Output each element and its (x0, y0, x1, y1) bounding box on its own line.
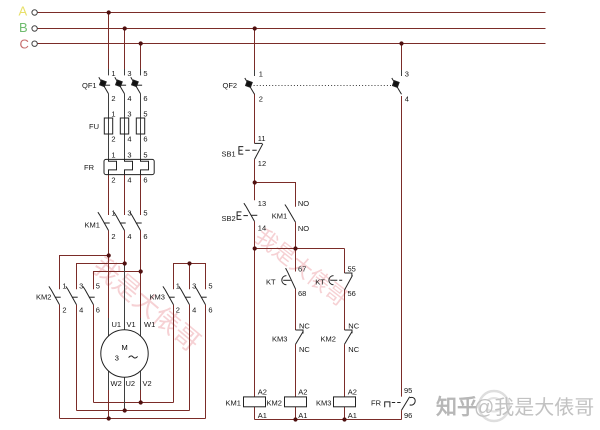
svg-text:A2: A2 (298, 388, 307, 397)
svg-text:KT: KT (266, 277, 276, 286)
svg-text:6: 6 (96, 305, 100, 314)
svg-text:知乎: 知乎 (436, 395, 478, 419)
svg-text:V1: V1 (127, 320, 136, 329)
svg-text:NO: NO (298, 199, 309, 208)
svg-text:KM3: KM3 (272, 334, 287, 343)
svg-text:NC: NC (348, 345, 359, 354)
svg-text:1: 1 (111, 151, 115, 160)
svg-text:W2: W2 (111, 379, 122, 388)
svg-text:1: 1 (111, 109, 115, 118)
svg-text:67: 67 (298, 265, 306, 274)
svg-text:1: 1 (176, 282, 180, 291)
svg-text:4: 4 (405, 94, 409, 103)
svg-text:3: 3 (127, 109, 131, 118)
svg-text:6: 6 (208, 305, 212, 314)
svg-text:KM3: KM3 (150, 293, 165, 302)
svg-text:3: 3 (79, 282, 83, 291)
svg-text:NC: NC (299, 345, 310, 354)
svg-text:1: 1 (111, 208, 115, 217)
svg-text:12: 12 (258, 159, 266, 168)
svg-text:2: 2 (111, 232, 115, 241)
svg-text:95: 95 (404, 386, 412, 395)
svg-text:NC: NC (348, 322, 359, 331)
svg-text:U1: U1 (112, 320, 122, 329)
svg-text:2: 2 (111, 135, 115, 144)
svg-text:3: 3 (405, 70, 409, 79)
svg-text:A2: A2 (258, 388, 267, 397)
svg-text:6: 6 (143, 176, 147, 185)
svg-text:6: 6 (143, 135, 147, 144)
svg-text:QF1: QF1 (82, 81, 97, 90)
svg-text:4: 4 (127, 94, 131, 103)
svg-text:A1: A1 (258, 411, 267, 420)
svg-text:5: 5 (143, 69, 147, 78)
svg-text:A1: A1 (298, 411, 307, 420)
svg-text:@我是大俵哥: @我是大俵哥 (474, 396, 594, 419)
svg-text:SB1: SB1 (222, 150, 236, 159)
svg-text:4: 4 (79, 305, 83, 314)
svg-text:5: 5 (143, 208, 147, 217)
svg-text:W1: W1 (144, 320, 155, 329)
svg-text:U2: U2 (126, 379, 136, 388)
svg-text:KM1: KM1 (226, 398, 241, 407)
svg-text:FR: FR (84, 163, 95, 172)
svg-text:3: 3 (127, 151, 131, 160)
svg-text:2: 2 (111, 176, 115, 185)
svg-text:A: A (19, 4, 28, 19)
svg-text:55: 55 (348, 265, 356, 274)
svg-text:3: 3 (127, 69, 131, 78)
svg-text:11: 11 (258, 134, 266, 143)
svg-text:NC: NC (299, 322, 310, 331)
svg-text:KM2: KM2 (267, 398, 282, 407)
svg-text:1: 1 (62, 282, 66, 291)
svg-text:KM3: KM3 (316, 398, 331, 407)
svg-text:FU: FU (89, 122, 99, 131)
svg-text:13: 13 (258, 199, 266, 208)
svg-text:4: 4 (192, 305, 196, 314)
svg-text:NO: NO (298, 224, 309, 233)
svg-text:A1: A1 (348, 411, 357, 420)
svg-text:2: 2 (62, 305, 66, 314)
svg-text:56: 56 (348, 289, 356, 298)
svg-text:FR: FR (371, 398, 382, 407)
svg-text:6: 6 (143, 94, 147, 103)
svg-text:6: 6 (143, 232, 147, 241)
svg-text:96: 96 (404, 411, 412, 420)
svg-text:5: 5 (208, 282, 212, 291)
svg-text:3: 3 (127, 208, 131, 217)
svg-text:KM1: KM1 (272, 211, 287, 220)
svg-text:2: 2 (111, 94, 115, 103)
svg-text:M: M (122, 343, 128, 352)
svg-text:SB2: SB2 (222, 214, 236, 223)
svg-text:4: 4 (127, 176, 131, 185)
svg-text:4: 4 (127, 232, 131, 241)
svg-text:1: 1 (111, 69, 115, 78)
svg-text:A2: A2 (348, 388, 357, 397)
svg-text:C: C (20, 37, 29, 52)
svg-text:5: 5 (143, 109, 147, 118)
svg-text:68: 68 (298, 289, 306, 298)
svg-text:1: 1 (259, 70, 263, 79)
svg-text:14: 14 (258, 224, 266, 233)
svg-text:V2: V2 (143, 379, 152, 388)
svg-text:2: 2 (259, 94, 263, 103)
svg-text:KM1: KM1 (85, 220, 100, 229)
svg-text:B: B (19, 20, 28, 35)
svg-text:KM2: KM2 (321, 334, 336, 343)
svg-text:3: 3 (192, 282, 196, 291)
svg-text:KT: KT (315, 277, 325, 286)
svg-text:5: 5 (96, 282, 100, 291)
svg-text:3: 3 (115, 353, 119, 362)
svg-text:2: 2 (176, 305, 180, 314)
svg-text:KM2: KM2 (36, 293, 51, 302)
svg-text:4: 4 (127, 135, 131, 144)
svg-text:5: 5 (143, 151, 147, 160)
svg-text:QF2: QF2 (223, 81, 238, 90)
